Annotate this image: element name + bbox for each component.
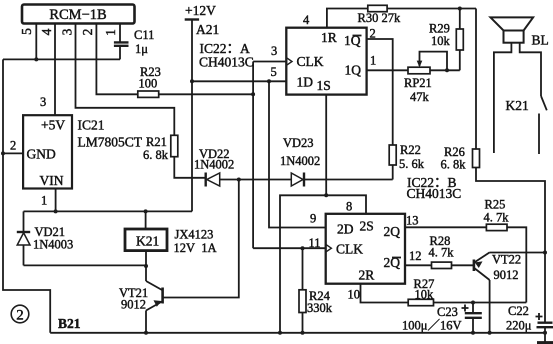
diode VD21 1N4003: [17, 211, 73, 265]
svg-text:IC21: IC21: [78, 118, 105, 133]
svg-text:2D: 2D: [337, 222, 354, 237]
svg-text:1R: 1R: [321, 30, 337, 45]
wire 2Q-bar pin12: [405, 264, 432, 266]
svg-text:5. 6k: 5. 6k: [399, 157, 425, 171]
svg-text:K21: K21: [136, 234, 159, 249]
svg-text:2Q: 2Q: [384, 224, 401, 239]
wire to CLK of IC22:A: [253, 61, 286, 63]
svg-text:220μ: 220μ: [506, 319, 532, 333]
wire VD21 anode to relay node: [24, 264, 147, 266]
svg-text:4: 4: [303, 13, 310, 27]
svg-text:CH4013C: CH4013C: [199, 55, 254, 70]
svg-text:6. 8k: 6. 8k: [441, 158, 467, 172]
svg-text:1N4002: 1N4002: [194, 157, 234, 171]
wire 1D from +12V: [192, 80, 286, 82]
pin 1 of RCM-1B: [103, 24, 120, 43]
transistor VT22 9012: [474, 252, 521, 332]
junction 2S ground: [278, 331, 282, 335]
wire VIN input node: [24, 210, 193, 212]
svg-text:9012: 9012: [121, 298, 146, 312]
wire ground bus under RCM-1B: [3, 58, 120, 60]
svg-text:3: 3: [271, 44, 277, 58]
svg-text:9012: 9012: [494, 268, 519, 282]
switch K21 contact: [506, 96, 547, 154]
resistor R24 330k: [299, 248, 333, 333]
wire 1Q-bar pin2: [367, 39, 393, 145]
svg-text:4. 7k: 4. 7k: [484, 210, 510, 224]
diode VD23 1N4002: [239, 136, 393, 187]
svg-text:1μ: 1μ: [135, 42, 148, 56]
svg-text:+5V: +5V: [41, 118, 65, 133]
junction VD22/VD23/base node: [237, 178, 241, 182]
svg-text:C22: C22: [508, 304, 529, 318]
junction VT22 collector/B21: [488, 331, 492, 335]
svg-text:VIN: VIN: [40, 173, 64, 188]
svg-text:10: 10: [348, 288, 361, 302]
svg-text:LM7805CT: LM7805CT: [78, 135, 143, 150]
resistor R21 6.8k: [143, 135, 206, 178]
svg-text:6. 8k: 6. 8k: [143, 148, 169, 162]
wire 1Q pin1 output: [367, 69, 408, 71]
svg-text:12V 1A: 12V 1A: [174, 241, 217, 255]
op-amp flip-flop IC22:A CH4013C: [199, 13, 376, 95]
junction R23 / clock riser: [251, 92, 255, 96]
svg-text:8: 8: [346, 200, 352, 214]
svg-text:47k: 47k: [410, 90, 430, 104]
junction 1S / 2S wire: [324, 193, 328, 197]
transistor VT21 9012: [119, 281, 163, 333]
pin 4 of RCM-1B: [39, 24, 55, 116]
wire left rail down to B21: [3, 59, 50, 332]
svg-text:1: 1: [103, 29, 118, 36]
svg-text:100: 100: [139, 77, 158, 91]
wire K21 top lead: [145, 211, 147, 229]
junction C23 top: [471, 301, 475, 305]
svg-text:VD23: VD23: [283, 136, 314, 150]
resistor R23 100: [138, 65, 253, 97]
potentiometer RP21 47k: [404, 52, 460, 104]
resistor R28 4.7k: [429, 234, 474, 269]
svg-text:3: 3: [59, 28, 74, 35]
svg-text:4: 4: [39, 28, 54, 35]
svg-text:1: 1: [370, 54, 376, 68]
svg-text:CH4013C: CH4013C: [407, 186, 462, 201]
junction GND rail: [1, 151, 5, 155]
resistor R22 5.6k: [389, 143, 425, 180]
svg-text:1Q: 1Q: [345, 63, 362, 78]
power rail +12V A21: [185, 3, 220, 211]
wire VT21 base from VD22 node: [163, 180, 239, 298]
junction K21 top lead: [144, 209, 148, 213]
svg-text:12: 12: [409, 249, 422, 263]
wire 2S net: [280, 195, 366, 332]
svg-text:BL: BL: [532, 33, 549, 48]
svg-text:RCM−1B: RCM−1B: [49, 7, 106, 23]
svg-text:C23: C23: [437, 305, 458, 319]
svg-text:3: 3: [40, 95, 46, 109]
svg-text:330k: 330k: [307, 301, 333, 315]
pin 5 of RCM-1B: [19, 24, 36, 60]
junction R29 top: [458, 7, 462, 11]
relay coil K21: [125, 228, 217, 256]
svg-text:2S: 2S: [360, 219, 374, 234]
junction pin1/VIN wire: [54, 209, 58, 213]
speaker BL: [491, 17, 549, 153]
svg-text:CLK: CLK: [336, 242, 363, 257]
svg-text:C11: C11: [134, 28, 154, 42]
svg-text:100μ／16V: 100μ／16V: [402, 319, 461, 333]
junction C23 bottom: [471, 331, 475, 335]
capacitor C11: [114, 28, 154, 59]
junction +12V / 1D wire: [190, 79, 194, 83]
diode VD22 1N4002: [194, 147, 239, 187]
svg-text:1N4002: 1N4002: [280, 154, 320, 168]
wire VIN pin1 down: [55, 189, 57, 212]
flip-flop IC22:B CH4013C: [309, 175, 462, 302]
svg-text:5: 5: [271, 65, 277, 79]
junction R24 bottom: [301, 331, 305, 335]
svg-text:2: 2: [16, 308, 24, 324]
junction R24 top: [301, 246, 305, 250]
svg-text:13: 13: [406, 214, 419, 228]
pin 3 of RCM-1B: [59, 24, 174, 136]
svg-text:R22: R22: [400, 143, 421, 157]
wire clock riser to CLK1 and CLK2: [252, 62, 254, 249]
svg-text:K21: K21: [506, 98, 529, 113]
svg-text:1: 1: [41, 194, 47, 208]
wire K21 bottom to VT21 collector: [145, 251, 147, 281]
junction pin5/bus: [34, 57, 38, 61]
wire 2D riser: [269, 81, 326, 227]
wire B21 bottom rail: [50, 332, 546, 334]
wire VT22 emitter rail: [490, 252, 545, 254]
svg-text:1D: 1D: [297, 75, 314, 90]
svg-text:2: 2: [80, 29, 95, 36]
wire pin4 1R to top rail: [327, 9, 368, 28]
svg-text:2: 2: [10, 139, 16, 153]
svg-text:B21: B21: [58, 316, 81, 331]
wire 2Q pin13: [405, 226, 486, 228]
capacitor C22 220u: [506, 304, 553, 343]
junction relay/collector node: [144, 264, 148, 268]
resistor R29 10k: [429, 9, 463, 71]
receiver module RCM-1B: [22, 5, 135, 24]
junction VT21 emitter/B21 rail: [144, 331, 148, 335]
svg-text:4. 7k: 4. 7k: [429, 245, 455, 259]
svg-text:VT22: VT22: [492, 253, 521, 267]
wire to CLK of IC22:B: [253, 247, 326, 249]
wire 1S pin down to 2S net: [325, 95, 327, 196]
figure number 2: [11, 305, 29, 323]
junction C22 / B21 rail: [543, 331, 547, 335]
wire GND pin2 to left rail: [3, 152, 23, 154]
svg-text:10k: 10k: [415, 288, 435, 302]
svg-text:R30 27k: R30 27k: [358, 11, 401, 25]
svg-text:11: 11: [309, 236, 321, 250]
resistor R25 4.7k: [484, 198, 527, 303]
junction RP21 wiper: [445, 68, 449, 72]
svg-text:+12V: +12V: [185, 3, 216, 18]
svg-text:GND: GND: [27, 147, 56, 162]
svg-text:JX4123: JX4123: [175, 228, 214, 242]
junction 1D / 2D riser: [267, 79, 271, 83]
svg-text:2R: 2R: [359, 268, 375, 283]
capacitor C23 100u/16V: [402, 303, 482, 333]
svg-text:1N4003: 1N4003: [33, 238, 73, 252]
voltage regulator IC21 LM7805CT: [10, 95, 143, 208]
svg-text:A21: A21: [196, 22, 219, 37]
resistor R27 10k: [408, 277, 526, 306]
junction emitter/C22 node: [543, 251, 547, 255]
svg-text:RP21: RP21: [404, 76, 432, 90]
pin 2 of RCM-1B: [80, 24, 138, 95]
svg-text:9: 9: [310, 212, 316, 226]
resistor R26 6.8k: [441, 9, 546, 323]
svg-text:1S: 1S: [317, 78, 331, 93]
svg-text:5: 5: [19, 28, 34, 35]
svg-text:CLK: CLK: [297, 54, 324, 69]
svg-text:10k: 10k: [431, 34, 451, 48]
resistor R30 27k: [358, 5, 477, 25]
wire 2R pin10: [361, 284, 409, 303]
